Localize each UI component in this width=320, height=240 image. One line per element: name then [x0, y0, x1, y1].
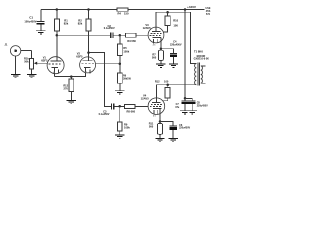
wire B+ rail y=9.5	[41, 9, 205, 11]
wire V2 plate branch to C3	[89, 53, 112, 107]
triode V1 6SF5	[41, 56, 64, 77]
svg-text:220u450V: 220u450V	[170, 43, 182, 46]
resistor R8	[125, 104, 135, 108]
svg-text:R4: R4	[117, 12, 121, 16]
svg-text:12AV5: 12AV5	[143, 26, 152, 30]
svg-text:R5: R5	[123, 46, 127, 50]
resistor R9	[117, 122, 122, 131]
wire node to R5	[119, 35, 121, 44]
wire plate/UL line y=12.2	[156, 12, 196, 63]
wire secondary stubs	[201, 66, 206, 83]
ground R6	[115, 90, 124, 94]
ground R7	[156, 64, 165, 68]
wire R6 to ground	[119, 83, 121, 90]
node rail-R1	[56, 8, 59, 11]
svg-text:82k: 82k	[78, 22, 83, 26]
ground J1	[11, 74, 20, 78]
wire node to R9	[119, 106, 121, 122]
wire shared cathode bus	[54, 73, 85, 77]
wire R10 to V3 screen	[163, 26, 168, 32]
node after C2	[119, 34, 122, 37]
svg-text:GXSE10-8-5K: GXSE10-8-5K	[194, 58, 210, 61]
node V2 plate junction	[87, 51, 90, 54]
wire R12 to V4 screen	[163, 98, 168, 101]
wire tap to V2 grid	[96, 63, 120, 65]
wire C3 to node	[114, 105, 124, 107]
resistor R10	[167, 12, 169, 16]
resistor R1	[54, 19, 59, 31]
svg-text:220u450V: 220u450V	[179, 127, 190, 130]
capacitor C6	[160, 122, 191, 138]
svg-text:220u450V: 220u450V	[197, 104, 208, 107]
wire caps top link	[185, 98, 192, 100]
capacitor C3	[99, 103, 115, 116]
resistor R7	[160, 49, 162, 51]
wire J1 sleeve to ground	[15, 56, 17, 74]
svg-text:R3-560: R3-560	[127, 39, 136, 43]
wire pot bottom to ground	[31, 69, 33, 74]
svg-text:270: 270	[64, 86, 69, 90]
power tube V3 12AV5	[143, 23, 164, 49]
wire R3 to V3 grid	[136, 34, 148, 36]
resistor R2	[86, 19, 91, 31]
wire V3 plate lead	[155, 12, 157, 31]
node R12 top	[166, 83, 169, 86]
resistor R13 cathode	[70, 77, 72, 80]
ground C8	[188, 110, 197, 114]
node V3 cathode	[160, 47, 163, 50]
svg-text:100k: 100k	[124, 126, 130, 130]
node divider tap	[119, 62, 122, 64]
wire R13 to ground	[70, 92, 72, 100]
resistor R3	[126, 33, 136, 37]
resistor R6	[117, 73, 122, 83]
wire pot wiper to V1 grid	[37, 62, 48, 64]
wire V4 plate line	[155, 85, 157, 98]
svg-text:560: 560	[149, 125, 154, 129]
triode V2 6SF5	[76, 52, 95, 77]
node V4 cathode	[159, 120, 162, 123]
svg-text:R8-560: R8-560	[127, 110, 136, 114]
svg-text:100u450V: 100u450V	[24, 19, 36, 23]
svg-text:+420V: +420V	[187, 5, 197, 9]
ground R9	[115, 134, 124, 138]
capacitor C1	[24, 16, 44, 31]
node R10 top	[166, 11, 169, 14]
svg-text:39k1W: 39k1W	[123, 78, 132, 81]
secondary winding	[201, 66, 203, 83]
wire R1 top stub	[56, 10, 58, 20]
wire B+ drop to filter caps	[184, 10, 186, 99]
capacitor C7	[175, 101, 188, 111]
connector J1	[5, 43, 32, 56]
capacitor C2	[104, 24, 115, 38]
svg-text:560: 560	[152, 56, 157, 60]
svg-text:100: 100	[164, 80, 169, 84]
svg-text:12AV5: 12AV5	[141, 97, 150, 101]
wire R2 bottom to V2 plate	[88, 31, 90, 57]
transformer T1	[194, 50, 210, 86]
node after C3	[118, 105, 121, 108]
wire R1 bottom to V1 plate	[56, 31, 58, 57]
node PSU note text	[206, 7, 211, 16]
power tube V4 12AV5	[141, 94, 165, 122]
ground C7	[180, 110, 189, 114]
capacitor C8	[189, 101, 208, 111]
core	[198, 63, 200, 86]
svg-text:82k: 82k	[64, 22, 69, 26]
svg-text:R10: R10	[173, 19, 178, 23]
ground R13	[67, 100, 76, 104]
svg-text:S71: S71	[206, 13, 211, 16]
wire R11 to ground	[159, 134, 161, 138]
ground pot	[27, 74, 36, 78]
wire R2 top stub	[88, 10, 90, 20]
node filter caps junction	[184, 97, 187, 100]
svg-text:J1: J1	[5, 43, 8, 47]
svg-text:0.1u450V: 0.1u450V	[99, 113, 110, 116]
wire R8 to V4 grid	[135, 105, 148, 107]
svg-text:47u: 47u	[175, 106, 180, 109]
ground C1	[36, 30, 45, 34]
wire V1 plate to C2	[57, 34, 110, 36]
node B+ drop	[184, 8, 187, 11]
capacitor C4	[161, 40, 182, 64]
svg-text:45: 45	[53, 71, 55, 74]
svg-text:150: 150	[124, 12, 129, 16]
svg-text:50k: 50k	[24, 60, 29, 64]
wire R7 to ground	[160, 60, 162, 63]
svg-text:C1: C1	[29, 16, 33, 20]
node cathode junction	[70, 75, 73, 78]
ground R11	[155, 138, 164, 142]
wire C1 drop	[40, 10, 42, 22]
svg-text:100: 100	[173, 23, 178, 27]
wire R5 to R6	[119, 56, 121, 73]
svg-text:T1 8K6: T1 8K6	[194, 50, 203, 54]
svg-text:R12: R12	[155, 80, 160, 84]
svg-text:6SF5: 6SF5	[76, 54, 83, 58]
resistor R4	[117, 8, 128, 11]
wire R9 to ground	[119, 131, 121, 134]
svg-text:4 5: 4 5	[153, 115, 157, 118]
svg-text:4 5: 4 5	[153, 43, 157, 46]
svg-text:0.1u450V: 0.1u450V	[104, 27, 115, 30]
wire C2 to node	[114, 34, 126, 36]
svg-text:100k: 100k	[123, 49, 129, 53]
node rail-R2	[87, 8, 90, 11]
ground C4	[169, 64, 178, 68]
node V1 plate junction	[56, 34, 59, 37]
potentiometer R1b 50k	[24, 50, 37, 69]
resistor R5	[117, 44, 122, 56]
svg-text:45: 45	[85, 71, 87, 74]
ground C6	[168, 138, 177, 142]
svg-text:6SF5: 6SF5	[41, 58, 48, 62]
resistor R11	[159, 122, 161, 124]
primary winding	[195, 64, 197, 85]
